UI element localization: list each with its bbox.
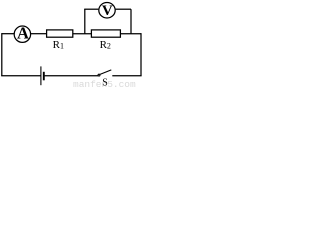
svg-text:2: 2 — [107, 42, 111, 51]
resistor R2 — [91, 30, 120, 37]
wire: battery to switch — [45, 75, 98, 77]
wire: ammeter to R1 — [31, 33, 47, 35]
resistor R1 — [47, 30, 73, 37]
wire: R2 to top-right corner — [120, 33, 141, 35]
switch S blade — [100, 70, 111, 75]
watermark manfen5.com — [73, 79, 136, 90]
svg-text:A: A — [17, 23, 29, 42]
svg-text:S: S — [102, 77, 108, 88]
wire: voltmeter loop top-right horizontal — [116, 8, 131, 10]
battery short thick plate — [43, 72, 45, 81]
voltmeter V circle — [99, 3, 115, 19]
battery long thin plate — [40, 66, 42, 85]
wire: bottom-right from switch contact to corner — [112, 75, 141, 77]
ammeter A circle — [14, 26, 30, 42]
wire: top-left horizontal from corner to ammeter — [2, 33, 14, 35]
svg-text:V: V — [102, 3, 113, 19]
wire: bottom-left from corner to battery — [1, 75, 40, 77]
wire: right vertical — [140, 33, 142, 76]
wire: voltmeter loop right vertical (node right of R2) — [130, 9, 132, 34]
wire: left vertical — [1, 33, 3, 76]
wire: voltmeter loop left vertical (node between R1 and R2) — [84, 9, 86, 34]
switch S pivot circle — [98, 74, 100, 76]
wire: voltmeter loop top-left horizontal — [84, 8, 98, 10]
wire: R1 to R2 — [73, 33, 92, 35]
svg-text:1: 1 — [60, 42, 64, 51]
